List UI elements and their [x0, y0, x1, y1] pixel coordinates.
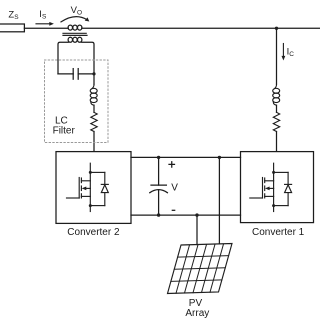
svg-text:IS: IS	[39, 9, 47, 21]
svg-text:Converter 1: Converter 1	[252, 227, 305, 238]
svg-text:IC: IC	[287, 46, 295, 58]
svg-text:VO: VO	[71, 5, 82, 17]
svg-text:Converter 2: Converter 2	[67, 227, 120, 238]
svg-text:V: V	[171, 183, 178, 194]
svg-text:Array: Array	[185, 308, 209, 319]
svg-text:ZS: ZS	[8, 9, 19, 21]
svg-text:Filter: Filter	[53, 126, 76, 137]
